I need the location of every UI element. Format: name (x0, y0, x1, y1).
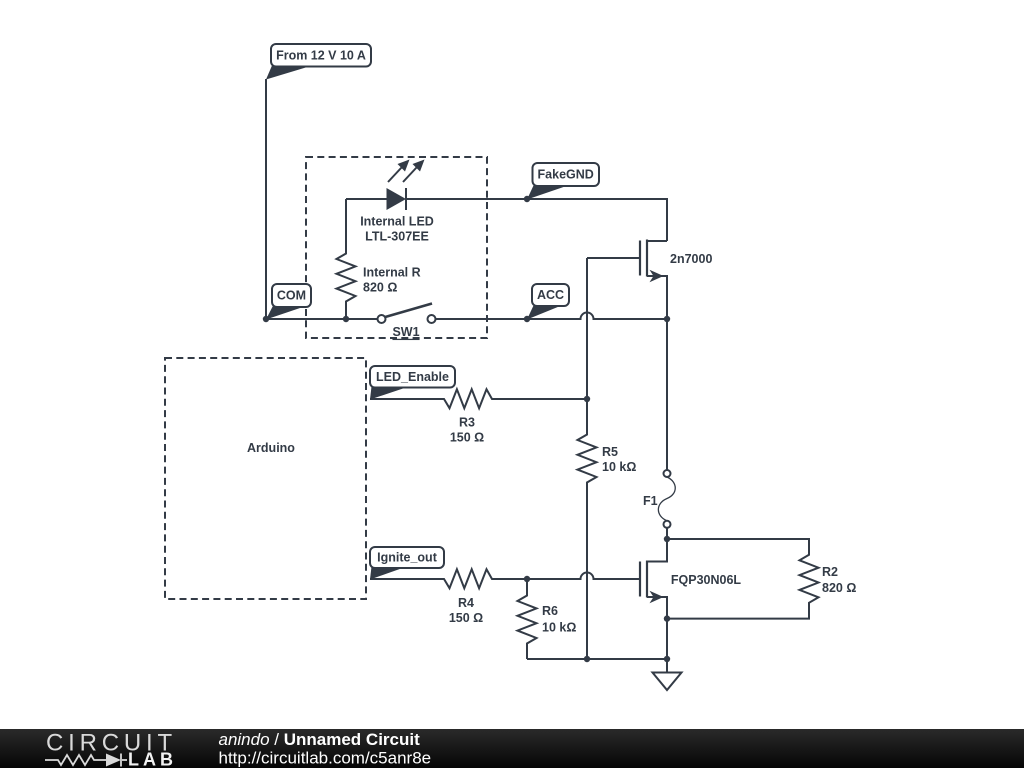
svg-text:FQP30N06L: FQP30N06L (671, 573, 742, 587)
logo resistor diode (45, 754, 127, 767)
svg-text:ACC: ACC (537, 288, 564, 302)
ground (653, 659, 682, 690)
wire gate net vertical with R5 (578, 258, 597, 659)
svg-text:2n7000: 2n7000 (670, 252, 712, 266)
svg-text:F1: F1 (643, 494, 658, 508)
node R4 R6 junction (524, 576, 530, 582)
node 2n7000 source / ACC (664, 316, 670, 322)
ground bus (527, 658, 667, 660)
transistor FQP30N06L (640, 539, 741, 619)
svg-text:10 kΩ: 10 kΩ (542, 621, 576, 635)
svg-text:820 Ω: 820 Ω (363, 281, 397, 295)
node source R2 (664, 615, 670, 621)
svg-text:LED_Enable: LED_Enable (376, 370, 449, 384)
flag ACC (527, 284, 569, 320)
svg-text:R2: R2 (822, 565, 838, 579)
svg-text:LAB: LAB (128, 750, 177, 768)
dashed box LED module (306, 157, 487, 338)
resistor R3 (370, 389, 587, 444)
node bus ground (664, 656, 670, 662)
svg-text:820 Ω: 820 Ω (822, 581, 856, 595)
node COM junction (263, 316, 269, 322)
svg-text:R4: R4 (458, 596, 474, 610)
resistor R4 with wire to FQP gate, hop (370, 569, 640, 625)
svg-text:Arduino: Arduino (247, 441, 295, 455)
svg-text:150 Ω: 150 Ω (450, 431, 484, 445)
node R3 gate net (584, 396, 590, 402)
wire source to ground bus (666, 619, 668, 659)
svg-text:Internal R: Internal R (363, 266, 421, 280)
svg-text:http://circuitlab.com/c5anr8e: http://circuitlab.com/c5anr8e (219, 749, 432, 768)
svg-text:Ignite_out: Ignite_out (377, 551, 438, 565)
flag FakeGND (527, 163, 599, 200)
svg-text:From 12 V 10 A: From 12 V 10 A (276, 49, 366, 63)
svg-text:FakeGND: FakeGND (538, 168, 594, 182)
svg-text:R3: R3 (459, 416, 475, 430)
svg-text:10 kΩ: 10 kΩ (602, 460, 636, 474)
wire COM to switch (266, 318, 378, 320)
wire LED to 2n7000 drain (406, 199, 667, 241)
node junction internal R bottom (343, 316, 349, 322)
flag Ignite_out (370, 547, 444, 580)
svg-text:R6: R6 (542, 604, 558, 618)
resistor Internal R (337, 199, 421, 319)
LED arrows (388, 167, 402, 182)
node FakeGND (524, 196, 530, 202)
svg-text:150 Ω: 150 Ω (449, 611, 483, 625)
dashed box Arduino (165, 358, 366, 599)
resistor R6 (518, 579, 577, 659)
svg-text:R5: R5 (602, 445, 618, 459)
wire switch to ACC with hop (436, 313, 668, 320)
wire from supply flag down (265, 79, 267, 319)
fuse F1 (643, 319, 675, 539)
node fuse / drain / R2 (664, 536, 670, 542)
flag LED_Enable (370, 366, 455, 400)
transistor 2n7000 (587, 240, 712, 320)
svg-text:anindo / Unnamed Circuit: anindo / Unnamed Circuit (219, 730, 421, 749)
svg-text:Internal LED: Internal LED (360, 215, 434, 229)
switch SW1 (378, 304, 436, 339)
flag COM (266, 284, 311, 320)
svg-text:COM: COM (277, 289, 306, 303)
node bus gate-net (584, 656, 590, 662)
node ACC (524, 316, 530, 322)
flag From 12 V 10 A (266, 44, 371, 80)
resistor R2 loop (667, 539, 856, 619)
svg-text:LTL-307EE: LTL-307EE (365, 230, 429, 244)
LED Internal LED (346, 160, 434, 244)
svg-text:SW1: SW1 (392, 325, 419, 339)
